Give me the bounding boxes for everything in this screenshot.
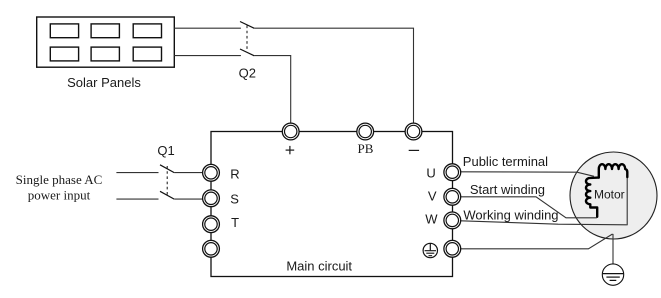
motor body xyxy=(570,152,657,239)
terminal left spare xyxy=(203,240,220,257)
wire Q2 bottom to plus terminal xyxy=(254,56,290,124)
protective earth symbol xyxy=(423,243,437,257)
wire Q2 top to minus terminal xyxy=(254,28,413,123)
motor working winding coil (top) xyxy=(599,164,627,177)
svg-text:V: V xyxy=(428,188,437,203)
terminal plus xyxy=(282,123,299,140)
svg-text:Public terminal: Public terminal xyxy=(463,154,548,169)
wire U to motor common xyxy=(461,172,594,177)
wire working winding lead down xyxy=(626,177,628,225)
svg-text:S: S xyxy=(230,191,239,206)
wire V to start winding xyxy=(461,197,597,218)
terminal S xyxy=(203,190,220,207)
svg-text:U: U xyxy=(426,165,435,180)
svg-text:T: T xyxy=(231,215,239,230)
svg-text:R: R xyxy=(230,167,239,182)
wire AC input stub S xyxy=(116,198,158,200)
terminal PB xyxy=(357,123,374,140)
wire W to working winding xyxy=(461,221,627,225)
wire AC input stub R xyxy=(116,172,158,174)
switch Q2 link (dashed) xyxy=(246,26,248,52)
svg-text:W: W xyxy=(425,211,438,226)
svg-text:Motor: Motor xyxy=(594,187,625,201)
earth ground symbol xyxy=(602,264,623,285)
terminal T xyxy=(203,216,220,233)
wire Q1 to R xyxy=(174,172,202,174)
terminal minus xyxy=(405,123,422,140)
terminal R xyxy=(203,164,220,181)
label minus xyxy=(409,149,419,151)
svg-text:Working winding: Working winding xyxy=(463,208,558,223)
wire solar- to Q2 bottom pole xyxy=(174,55,241,57)
main circuit box xyxy=(211,132,453,277)
svg-text:Start winding: Start winding xyxy=(470,182,545,197)
svg-text:PB: PB xyxy=(358,141,374,156)
solar cell 1 xyxy=(50,24,78,38)
motor start winding coil (left) xyxy=(586,178,599,217)
wire solar+ to Q2 top pole xyxy=(174,27,241,29)
solar cell 5 xyxy=(91,47,119,61)
wire motor frame to earth xyxy=(612,234,614,274)
svg-text:Single phase AC: Single phase AC xyxy=(16,172,103,187)
wire Q1 to S xyxy=(174,198,202,200)
terminal U xyxy=(444,164,461,181)
switch Q2 bottom blade xyxy=(240,49,254,56)
switch Q1 bottom blade xyxy=(160,191,174,199)
label plus xyxy=(286,146,295,154)
wire ground terminal to motor frame xyxy=(461,234,613,249)
terminal V xyxy=(444,188,461,205)
svg-text:Q2: Q2 xyxy=(239,65,256,80)
terminal W xyxy=(444,212,461,229)
solar cell 6 xyxy=(133,47,161,61)
solar cell 3 xyxy=(133,24,161,38)
svg-text:Q1: Q1 xyxy=(157,143,174,158)
terminal ground xyxy=(444,240,461,257)
svg-text:power input: power input xyxy=(28,188,91,203)
solar panel array box xyxy=(37,17,175,67)
svg-text:Main circuit: Main circuit xyxy=(286,259,352,274)
solar cell 2 xyxy=(91,24,119,38)
switch Q1 link (dashed) xyxy=(166,166,168,195)
switch Q1 top blade xyxy=(160,165,174,173)
solar cell 4 xyxy=(50,47,78,61)
svg-text:Solar Panels: Solar Panels xyxy=(67,75,141,90)
switch Q2 top blade xyxy=(240,22,254,29)
